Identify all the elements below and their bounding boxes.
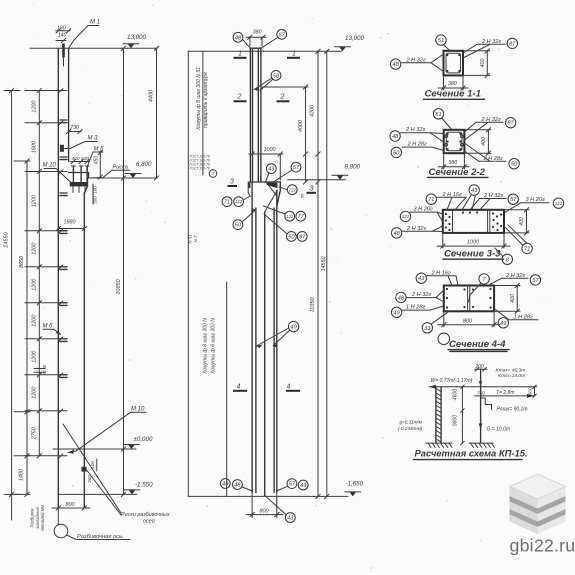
corbel top: [250, 181, 280, 183]
svg-text:Хомуты ф 8 шаг 300 N 51: Хомуты ф 8 шаг 300 N 51: [196, 67, 202, 131]
svg-text:W= 0,77т(-1,17т): W= 0,77т(-1,17т): [431, 378, 473, 384]
callout 43 section 3-3: [469, 185, 479, 195]
scheme ground line + hatch: [426, 442, 452, 444]
dimension 380 section 2-2: [443, 153, 445, 169]
leaders to риски text: [63, 424, 121, 513]
callouts 50 87 lower: [287, 232, 297, 242]
callout 50 lower-left: [233, 220, 243, 230]
svg-text:1200: 1200: [32, 279, 38, 291]
svg-text:3: 3: [230, 179, 234, 186]
svg-text:49: 49: [222, 482, 228, 488]
axis bubble: [54, 524, 68, 538]
bottom callout 43: [285, 513, 295, 523]
small dims 50 50 on chain: [34, 368, 45, 370]
svg-text:140: 140: [58, 33, 67, 39]
svg-text:1880: 1880: [64, 220, 76, 226]
svg-text:77: 77: [298, 214, 305, 220]
axis bubble section 4-4: [438, 333, 450, 345]
svg-text:1200: 1200: [32, 387, 38, 399]
notes box right edge (lower): [226, 282, 228, 496]
svg-text:приварить к арматуре: приварить к арматуре: [203, 72, 209, 128]
svg-text:1: 1: [292, 51, 296, 58]
logo stacked slabs: [510, 474, 566, 534]
svg-text:800: 800: [463, 318, 472, 324]
svg-text:1200: 1200: [32, 101, 38, 113]
svg-text:400: 400: [519, 217, 525, 226]
svg-text:43: 43: [287, 516, 294, 522]
scheme G load arrow: [480, 418, 482, 429]
svg-text:Pmax= 90,1т: Pmax= 90,1т: [497, 406, 528, 412]
svg-text:(-0,234т/м): (-0,234т/м): [398, 426, 423, 431]
svg-text:48: 48: [392, 134, 399, 140]
anchor bolts on corbel: [72, 166, 74, 183]
svg-text:М 10: М 10: [131, 407, 145, 413]
svg-text:6,800: 6,800: [136, 161, 152, 168]
svg-text:1200: 1200: [32, 195, 38, 207]
svg-text:деталей М6: деталей М6: [40, 505, 45, 531]
callout 43 + 2Н16г section 4-4: [416, 273, 426, 283]
dimension 14550 (middle): [326, 51, 328, 496]
svg-text:Разбивочная ось.: Разбивочная ось.: [77, 534, 124, 540]
callout 71 + 2Н16г section 3-3: [426, 194, 436, 204]
callout 57 (corbel): [291, 162, 301, 172]
svg-text:Сечение 2-2: Сечение 2-2: [429, 167, 486, 178]
svg-text:400: 400: [481, 137, 487, 146]
svg-text:10850: 10850: [116, 278, 122, 294]
stirrup bumps section 2-2: [445, 135, 448, 138]
callout 50 + 2Н28г section 2-2: [391, 147, 401, 157]
svg-text:N 51: N 51: [188, 234, 193, 244]
svg-text:380: 380: [253, 30, 262, 36]
notes box left edge: [187, 51, 189, 496]
svg-text:4400: 4400: [148, 89, 154, 102]
svg-text:122: 122: [289, 187, 297, 192]
corbel embedded plate (hatched): [267, 183, 278, 189]
level 0.000 line: [53, 448, 136, 450]
callout 48 + 2Н32г left: [390, 59, 400, 69]
svg-text:600: 600: [528, 387, 533, 395]
svg-text:800: 800: [260, 508, 269, 514]
notes box inner line: [202, 51, 204, 175]
section 2-2 concrete outline: [444, 130, 465, 153]
svg-text:380: 380: [448, 81, 457, 87]
svg-text:4000: 4000: [298, 120, 304, 132]
dimension chain 8650/1400: [26, 161, 28, 494]
middle column lower shaft: [251, 182, 253, 493]
svg-text:51: 51: [435, 112, 441, 118]
dimension chain 1200-series: [38, 91, 40, 456]
svg-text:50: 50: [235, 223, 242, 229]
svg-text:М 6: М 6: [43, 324, 54, 330]
rebar dots section 3-3 left group: [445, 213, 447, 215]
corbel embedded plate M10: [70, 182, 88, 186]
svg-text:1200: 1200: [32, 243, 38, 255]
dimension 380 section 1-1: [443, 75, 445, 90]
svg-text:1200: 1200: [32, 315, 38, 327]
bottom line middle elevation: [188, 495, 348, 497]
svg-text:87: 87: [509, 41, 516, 47]
svg-text:закладных: закладных: [35, 506, 40, 529]
svg-text:50: 50: [288, 234, 295, 240]
callout 8 section 3-3: [502, 254, 512, 264]
dimension 400 section 3-3: [526, 210, 528, 233]
callout 49 (shaft): [288, 321, 298, 331]
left step detail: [248, 182, 250, 197]
svg-text:33: 33: [424, 326, 431, 332]
svg-text:9800: 9800: [452, 415, 458, 426]
svg-text:8650: 8650: [19, 256, 25, 268]
svg-text:48: 48: [392, 62, 399, 68]
middle column upper shaft: [249, 48, 251, 182]
rebar dots section 1-1: [446, 54, 448, 56]
svg-text:14550: 14550: [3, 231, 9, 247]
callout 7 in notes box: [209, 170, 217, 178]
corbel top surface: [69, 172, 89, 174]
column top cap: [250, 47, 262, 49]
svg-text:49: 49: [500, 321, 506, 327]
bottom callouts 49 48: [220, 479, 230, 489]
svg-text:4: 4: [237, 384, 241, 391]
svg-text:Т= 2,8т: Т= 2,8т: [496, 390, 514, 396]
svg-text:50 50: 50 50: [42, 364, 47, 375]
svg-text:±0,000: ±0,000: [134, 436, 153, 443]
scheme dimension 600: [534, 387, 536, 396]
svg-text:2: 2: [237, 94, 242, 101]
svg-text:57: 57: [293, 165, 300, 171]
scheme dimension 4600 / 9800: [461, 387, 463, 443]
callout 48 + 2Н32г section 2-2: [390, 131, 400, 141]
callout 51 (stirrup): [436, 35, 446, 45]
section 4-4 concrete outline: [444, 286, 494, 312]
svg-text:М 1: М 1: [90, 20, 100, 26]
svg-text:750: 750: [477, 390, 485, 395]
svg-text:1: 1: [238, 51, 242, 58]
svg-text:N 7: N 7: [193, 235, 198, 242]
svg-text:осей: осей: [143, 518, 155, 525]
scheme Pmax bracket: [481, 398, 492, 410]
column axis extension to bubble: [57, 508, 59, 525]
svg-text:13,000: 13,000: [345, 35, 364, 42]
corbel right face and haunch: [84, 178, 87, 193]
section mark 1-1: [234, 57, 247, 59]
column left elevation: upper right edge: [68, 48, 70, 161]
axis mark (риска) on column: [81, 467, 86, 472]
svg-text:57: 57: [532, 278, 539, 284]
corbel right face and haunch: [277, 182, 281, 207]
dimension 4000: [305, 87, 307, 182]
svg-text:50: 50: [300, 193, 305, 198]
svg-text:87: 87: [507, 121, 514, 127]
svg-text:gbi22.ru: gbi22.ru: [510, 536, 575, 556]
svg-text:Сечение 3-3: Сечение 3-3: [444, 249, 501, 260]
svg-text:М 10: М 10: [43, 163, 57, 169]
svg-text:400: 400: [480, 59, 486, 68]
dimension 800 bottom: [251, 493, 253, 518]
level -1,650: [349, 492, 356, 497]
svg-text:Хомуты ф 6 шаг 300 N: Хомуты ф 6 шаг 300 N: [211, 318, 217, 375]
svg-text:87: 87: [299, 234, 306, 240]
svg-text:14550: 14550: [321, 257, 327, 272]
rebar dots section 4-4: [446, 288, 448, 290]
dimension 800 section 4-4: [443, 311, 445, 327]
rebar dots section 3-3 right group: [492, 212, 494, 214]
svg-text:50: 50: [511, 162, 518, 168]
node 13.000 level line (left elevation): [30, 47, 157, 49]
embedded tie marks on left edge: [60, 119, 67, 121]
svg-text:4200: 4200: [310, 105, 316, 117]
svg-text:Хомуты ф 8 шаг 300 N: Хомуты ф 8 шаг 300 N: [202, 318, 208, 375]
bottom callouts 57 49: [287, 479, 297, 489]
lower column right edge: [83, 193, 85, 508]
embedded part M1 anchor at column top: [62, 44, 65, 58]
callout 49 + 1Н28г section 4-4: [391, 307, 401, 317]
section 3-3 inner dividers: [487, 210, 489, 233]
svg-text:ГОСТ 103-76: ГОСТ 103-76: [190, 167, 210, 171]
svg-text:Риски разбивочных: Риски разбивочных: [121, 512, 170, 518]
svg-text:43: 43: [471, 188, 478, 194]
svg-text:13,000: 13,000: [127, 34, 146, 41]
callout 49 + 1Н28г right section 4-4: [498, 318, 508, 328]
svg-text:49: 49: [300, 483, 306, 489]
callout 48 + 2Н32г section 4-4: [396, 292, 406, 302]
rebar dots section 3-3 middle top: [462, 211, 464, 213]
svg-text:450: 450: [93, 156, 99, 165]
svg-text:Риска: Риска: [113, 165, 128, 171]
svg-text:400: 400: [510, 294, 516, 303]
svg-text:Разбивка: Разбивка: [30, 508, 35, 528]
svg-text:1400: 1400: [19, 469, 25, 481]
callout 122 + 3Н20г left section 3-3: [400, 211, 410, 221]
level -1,550 line: [58, 493, 137, 495]
svg-text:57: 57: [289, 482, 296, 488]
dimension 400 section 4-4: [516, 286, 518, 312]
callout 43 (corbel): [266, 164, 276, 174]
svg-text:43: 43: [418, 276, 425, 282]
svg-text:51: 51: [438, 38, 444, 44]
callout 122 right: [287, 185, 297, 195]
callout 7 section 4-4: [479, 274, 489, 284]
embedded plate M3: [60, 145, 64, 152]
dimension chain 14550 overall: [11, 91, 13, 521]
callout 48 top: [233, 32, 243, 42]
svg-text:7: 7: [212, 171, 215, 176]
section 1-1 concrete outline: [444, 51, 464, 76]
scheme crane beam line T=2,8т: [475, 395, 534, 397]
svg-text:50: 50: [273, 73, 280, 79]
svg-text:71: 71: [428, 197, 434, 203]
section 3-3 concrete outline: [443, 210, 504, 233]
svg-text:g=0,31т/м: g=0,31т/м: [400, 420, 423, 425]
svg-text:-1,650: -1,650: [346, 481, 364, 488]
scheme right post: [480, 369, 482, 443]
callouts 71 122 left: [222, 197, 232, 207]
dimension 4200: [317, 51, 319, 496]
section 4-4 middle divider: [467, 286, 469, 312]
svg-text:122: 122: [555, 201, 563, 206]
level 8,800 line: [288, 179, 346, 181]
svg-text:Сечение 1-1: Сечение 1-1: [425, 89, 481, 100]
svg-text:71: 71: [524, 247, 530, 253]
svg-text:8,800: 8,800: [345, 164, 361, 171]
middle elevation top line / 13.000 level: [188, 50, 341, 52]
svg-text:87: 87: [279, 32, 286, 38]
svg-text:2750: 2750: [32, 427, 38, 440]
svg-text:Kmin=14,0т: Kmin=14,0т: [498, 373, 525, 379]
dimension 400 section 2-2: [487, 130, 489, 153]
svg-text:-1,550: -1,550: [135, 482, 153, 489]
svg-text:4600: 4600: [452, 389, 458, 400]
svg-text:122: 122: [286, 214, 294, 219]
svg-text:48: 48: [398, 295, 405, 301]
svg-text:48: 48: [393, 231, 400, 237]
svg-text:122: 122: [235, 199, 243, 204]
svg-text:400: 400: [72, 156, 80, 162]
svg-text:49: 49: [393, 310, 399, 316]
svg-text:57: 57: [510, 197, 517, 203]
svg-text:730: 730: [70, 125, 79, 131]
column left elevation: left edge: [57, 48, 59, 508]
svg-text:50: 50: [393, 150, 400, 156]
dimension 400 section 1-1: [486, 51, 488, 76]
svg-text:380: 380: [449, 160, 458, 166]
level flag 13,000: [128, 44, 135, 49]
svg-text:Расчетная схема КП-15.: Расчетная схема КП-15.: [415, 448, 528, 459]
svg-text:1000: 1000: [264, 147, 276, 153]
svg-text:3: 3: [310, 186, 314, 193]
scheme K force arrow on post: [480, 377, 482, 386]
svg-text:Сечение 4-4: Сечение 4-4: [449, 339, 506, 350]
dimension line 10850: [123, 48, 125, 494]
svg-text:800: 800: [66, 502, 75, 508]
svg-text:49: 49: [290, 325, 296, 331]
scheme column (laced): [435, 387, 437, 443]
dimension 450 vertical: [99, 151, 101, 178]
svg-text:10350: 10350: [310, 298, 316, 313]
callout 87 top: [277, 29, 287, 39]
callout 51 section 2-2: [433, 109, 443, 119]
svg-text:1200: 1200: [32, 351, 38, 363]
callouts 122 77: [285, 211, 295, 221]
callout 48 + 2Н32г section 3-3: [391, 228, 401, 238]
svg-text:G = 10,0т: G = 10,0т: [487, 427, 510, 433]
level 6,800 line + flag: [88, 177, 157, 179]
svg-text:71: 71: [224, 200, 230, 206]
svg-text:1600: 1600: [32, 141, 38, 153]
svg-text:48: 48: [234, 483, 241, 489]
svg-text:100: 100: [90, 461, 95, 469]
svg-text:48: 48: [235, 35, 242, 41]
svg-text:2: 2: [280, 94, 285, 101]
callout 71 lower right section 3-3: [522, 243, 532, 253]
rebar dots section 2-2: [446, 133, 448, 135]
dimension 1000 section 3-3: [442, 233, 444, 248]
dimension line 4400: [156, 48, 158, 178]
svg-text:43: 43: [268, 167, 275, 173]
svg-text:4: 4: [287, 384, 291, 391]
callout 33 section 4-4: [422, 323, 432, 333]
svg-text:1000: 1000: [467, 240, 479, 246]
svg-text:122: 122: [402, 214, 410, 219]
scheme top chord: [429, 386, 494, 388]
svg-text:Kmax= 48,3т: Kmax= 48,3т: [496, 368, 526, 374]
callout 50 upper: [271, 71, 281, 81]
svg-text:М 3: М 3: [88, 136, 99, 142]
